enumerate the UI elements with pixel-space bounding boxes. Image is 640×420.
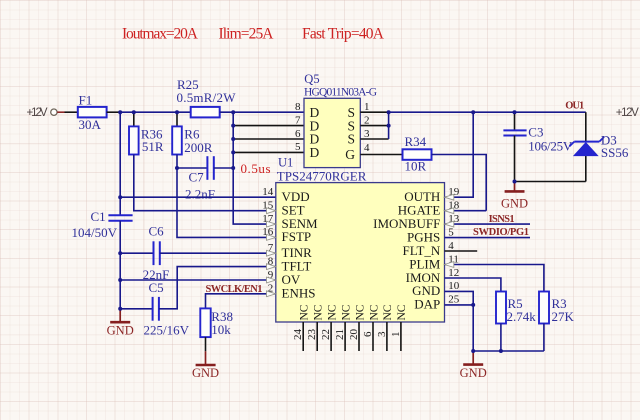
wire DAP pin (445, 304, 474, 306)
svg-text:+12V: +12V (616, 107, 639, 119)
svg-text:GND: GND (192, 366, 219, 380)
svg-text:C5: C5 (149, 280, 164, 295)
wire Q5 drain pin 7 (233, 125, 304, 127)
NC pin 1 (390, 304, 408, 351)
resistor R25 0.5mR/2W (177, 77, 237, 118)
wire R36 to SET pin (134, 155, 276, 211)
svg-text:2: 2 (364, 114, 370, 126)
svg-text:104/50V: 104/50V (72, 225, 118, 240)
svg-text:25: 25 (448, 294, 460, 306)
wire F1 to rail (107, 111, 121, 113)
wire Q5 drain pin 6 (233, 138, 304, 140)
NC pin 23 (306, 304, 324, 351)
svg-text:C7: C7 (189, 170, 205, 185)
NC pin 21 (334, 304, 352, 351)
wire sense node vertical to SENM (233, 112, 276, 224)
junction rail sense (231, 110, 235, 114)
wire C1 node to C6 (120, 252, 153, 254)
svg-text:0.5us: 0.5us (241, 161, 271, 176)
junction source tie (387, 110, 391, 114)
pin arrow HGATE (445, 208, 454, 214)
svg-text:GND: GND (460, 366, 487, 380)
op-amp IC U1 TPS24770RGER body (276, 156, 445, 322)
wire PLIM to R3 (445, 265, 544, 292)
svg-text:106/25V: 106/25V (528, 138, 573, 153)
svg-text:3: 3 (376, 331, 388, 337)
wire Q5 source pin 1 (360, 111, 388, 113)
wire Q5 source pin 2 (360, 125, 388, 127)
pin arrow ENHS (267, 291, 276, 297)
svg-text:Ilim=25A: Ilim=25A (219, 26, 275, 43)
svg-text:SS56: SS56 (601, 145, 629, 160)
junction R5 gnd (499, 349, 503, 353)
svg-text:D: D (310, 145, 320, 160)
svg-text:10: 10 (448, 280, 460, 292)
junction R6 C7 (175, 166, 179, 170)
svg-text:Fast Trip=40A: Fast Trip=40A (302, 26, 385, 43)
resistor R3 27K (539, 292, 575, 324)
diode D3 SS56 (569, 112, 628, 181)
svg-text:C6: C6 (149, 224, 165, 239)
svg-text:6: 6 (295, 128, 301, 140)
svg-text:DAP: DAP (414, 297, 440, 312)
svg-text:NC: NC (313, 304, 325, 320)
svg-text:200R: 200R (184, 140, 213, 155)
wire PGHS stub (445, 237, 531, 239)
svg-text:G: G (345, 147, 355, 162)
svg-text:5: 5 (448, 226, 454, 238)
wire C5 to TFLT pin (159, 267, 276, 309)
svg-text:R34: R34 (405, 134, 427, 149)
capacitor C7 2.2nF (185, 156, 215, 201)
svg-text:+12V: +12V (27, 107, 48, 119)
svg-text:C3: C3 (528, 124, 543, 139)
capacitor C3 106/25V (503, 112, 573, 181)
NC pin 24 (292, 304, 310, 351)
svg-text:2.2nF: 2.2nF (185, 187, 215, 202)
wire Q5 gate pin 4 (360, 154, 402, 156)
capacitor C6 22nF (143, 224, 170, 282)
wire Q5 drain pin 5 (233, 151, 304, 153)
resistor R36 51R (129, 112, 164, 154)
svg-text:GND: GND (501, 197, 528, 211)
svg-text:NC: NC (368, 304, 380, 320)
svg-text:ENHS: ENHS (282, 286, 316, 301)
svg-text:NC: NC (340, 304, 352, 320)
svg-text:GND: GND (107, 323, 134, 337)
wire ENHS to R38 (206, 294, 276, 309)
svg-text:ISNS1: ISNS1 (489, 214, 515, 225)
wire OV pin (120, 279, 276, 281)
wire to C5 (120, 308, 152, 310)
svg-text:14: 14 (262, 186, 274, 198)
wire IMONBUFF stub (445, 223, 531, 225)
svg-text:3: 3 (364, 128, 370, 140)
junction gnd rail (471, 349, 475, 353)
NC pin 20 (348, 304, 366, 351)
NC pin 6 (362, 304, 380, 351)
resistor R5 2.74k (496, 292, 536, 324)
wire R6 node to C7 (177, 167, 207, 169)
resistor R6 200R (172, 112, 213, 155)
pin arrow TFLT (267, 264, 276, 270)
power port +12V input (27, 107, 65, 119)
capacitor C1 104/50V (72, 209, 133, 240)
svg-text:8: 8 (295, 101, 301, 113)
fuse F1 30A (78, 93, 107, 132)
svg-text:TPS24770RGER: TPS24770RGER (277, 169, 367, 184)
svg-text:NC: NC (326, 304, 338, 320)
NC pin 22 (320, 304, 338, 351)
wire output rail (389, 111, 586, 113)
svg-text:10k: 10k (211, 322, 231, 337)
svg-text:51R: 51R (142, 139, 164, 154)
junction OV tap (118, 278, 122, 282)
svg-text:20: 20 (348, 329, 360, 341)
junction sense C7 (231, 166, 235, 170)
svg-text:Ioutmax=20A: Ioutmax=20A (122, 26, 199, 43)
svg-text:OU1: OU1 (565, 101, 584, 112)
svg-text:HGQ011N03A-G: HGQ011N03A-G (304, 87, 377, 99)
resistor R34 10R (403, 134, 432, 173)
svg-text:NC: NC (396, 304, 408, 320)
wire bottom ground rail (473, 350, 544, 352)
svg-text:22: 22 (320, 329, 332, 340)
svg-text:27K: 27K (552, 309, 575, 324)
ground symbol under R38 (192, 351, 219, 380)
junction VDD tap (118, 195, 122, 199)
junction C3 gnd (513, 180, 517, 184)
ground symbol under C3 (501, 182, 528, 211)
wire HGATE pin (445, 210, 487, 212)
svg-text:4: 4 (364, 142, 370, 154)
node left vertical +12V to C1 (119, 112, 121, 215)
junction sense D6 (231, 137, 235, 141)
wire R6 down to FSTP pin (177, 155, 276, 238)
pin arrow OUTH (445, 194, 454, 200)
wire +12V rail (120, 111, 191, 113)
wire IMON to R5 (445, 278, 501, 292)
wire R34 to HGATE (432, 155, 487, 211)
svg-text:F1: F1 (79, 93, 93, 108)
svg-text:SWCLK/EN1: SWCLK/EN1 (206, 284, 263, 295)
svg-text:OV: OV (282, 272, 301, 287)
junction C6 tap (118, 251, 122, 255)
svg-text:30A: 30A (79, 117, 102, 132)
wire C7 to sense vertical (214, 167, 233, 169)
wire R25 to Q5 pin 8 (220, 111, 304, 113)
wire C1 down to C6 C5 taps (119, 221, 121, 309)
svg-text:5: 5 (295, 141, 301, 153)
svg-text:1: 1 (364, 101, 370, 113)
svg-text:U1: U1 (278, 156, 293, 170)
svg-text:FSTP: FSTP (282, 229, 312, 244)
resistor R38 10k (200, 308, 233, 337)
svg-text:SWDIO/PG1: SWDIO/PG1 (473, 227, 529, 238)
junction rail C3 (513, 110, 517, 114)
wire C6 to TINR pin (160, 252, 276, 254)
transistor Q5 HGQ011N03A-G (304, 72, 377, 168)
junction C5 tap (118, 307, 122, 311)
junction DAP (471, 303, 475, 307)
ground symbol left (107, 309, 134, 338)
svg-text:4: 4 (448, 240, 454, 252)
junction sense D7 (231, 124, 235, 128)
svg-text:Q5: Q5 (304, 72, 319, 86)
svg-text:6: 6 (362, 331, 374, 337)
svg-text:21: 21 (334, 329, 346, 340)
svg-text:225/16V: 225/16V (144, 322, 190, 337)
NC pin 3 (376, 304, 394, 351)
junction sense D5 (231, 150, 235, 154)
wire Q5 source pin 3 (360, 138, 388, 140)
svg-text:S: S (347, 132, 355, 147)
junction rail OUTH (471, 110, 475, 114)
svg-text:0.5mR/2W: 0.5mR/2W (177, 90, 237, 105)
wire C3 to D3 anode (515, 181, 586, 183)
pin arrow SENM (267, 221, 276, 227)
junction source pin2 (387, 124, 391, 128)
svg-text:7: 7 (295, 114, 301, 126)
junction rail C1 (118, 110, 122, 114)
wire OUTH pin up to rail (445, 112, 474, 197)
svg-text:NC: NC (382, 304, 394, 320)
svg-text:NC: NC (299, 304, 311, 320)
pin arrow IMONBUFF (445, 221, 454, 227)
pin arrow OV (267, 277, 276, 283)
junction rail R36 (132, 110, 136, 114)
svg-text:10R: 10R (405, 159, 427, 174)
wire R38 to ground (205, 337, 207, 351)
wire VDD (120, 196, 276, 198)
svg-text:23: 23 (306, 329, 318, 341)
svg-text:C1: C1 (91, 209, 106, 224)
ground symbol bottom right (460, 351, 487, 380)
svg-text:1: 1 (390, 332, 402, 338)
svg-text:NC: NC (354, 304, 366, 320)
capacitor C5 225/16V (144, 280, 190, 337)
wire R5 bottom (500, 324, 502, 352)
wire port to F1 (65, 111, 78, 113)
junction rail R6 (175, 110, 179, 114)
wire source tie vertical (388, 112, 390, 139)
svg-text:12: 12 (448, 267, 459, 279)
pin arrow SET (267, 208, 276, 214)
pin arrow FSTP (267, 235, 276, 241)
wire GND pin down (445, 291, 474, 351)
pin arrow TINR (267, 250, 276, 256)
wire R3 bottom (543, 324, 545, 352)
svg-text:24: 24 (292, 329, 304, 341)
svg-text:2.74k: 2.74k (507, 309, 537, 324)
pin arrow PLIM (445, 262, 454, 268)
wire FLT_N stub (445, 250, 478, 252)
